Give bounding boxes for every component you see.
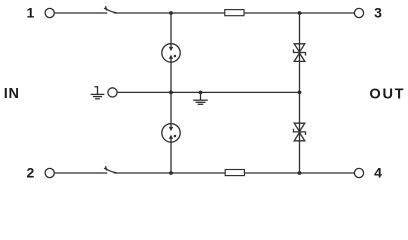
earth ground left	[91, 86, 105, 99]
terminal 4	[354, 168, 363, 177]
gas discharge tube bottom	[162, 124, 180, 142]
wire GDT column	[170, 13, 172, 173]
svg-text:3: 3	[374, 5, 382, 21]
junction top TVS	[298, 11, 302, 15]
wire bottom (disconnect to terminal 4)	[114, 172, 354, 174]
resistor top	[225, 10, 244, 16]
junction bottom GDT	[169, 171, 173, 175]
thermal disconnect bottom	[104, 166, 116, 173]
resistor bottom	[225, 170, 244, 176]
svg-text:IN: IN	[4, 86, 20, 102]
wire bottom-left (terminal 2 to disconnect)	[54, 172, 107, 174]
wire middle (ground terminal to TVS column)	[117, 91, 299, 93]
junction middle ground	[199, 91, 203, 95]
earth ground center	[193, 92, 208, 104]
wire TVS column	[299, 13, 301, 173]
suppressor diode bottom	[294, 123, 306, 141]
gas discharge tube top	[162, 44, 180, 62]
svg-text:1: 1	[27, 5, 35, 21]
svg-text:OUT: OUT	[369, 87, 405, 103]
wire top (disconnect to terminal 3)	[114, 12, 354, 14]
ground terminal	[108, 88, 117, 97]
thermal disconnect top	[104, 6, 116, 13]
svg-text:2: 2	[27, 165, 35, 181]
svg-text:4: 4	[374, 165, 382, 181]
terminal 1	[45, 8, 54, 17]
terminal 3	[354, 8, 363, 17]
wire top-left (terminal 1 to disconnect)	[54, 12, 107, 14]
junction middle TVS	[298, 91, 302, 95]
junction bottom TVS	[298, 171, 302, 175]
terminal 2	[45, 168, 54, 177]
suppressor diode top	[294, 44, 306, 62]
junction middle GDT	[169, 91, 173, 95]
junction top GDT	[169, 11, 173, 15]
